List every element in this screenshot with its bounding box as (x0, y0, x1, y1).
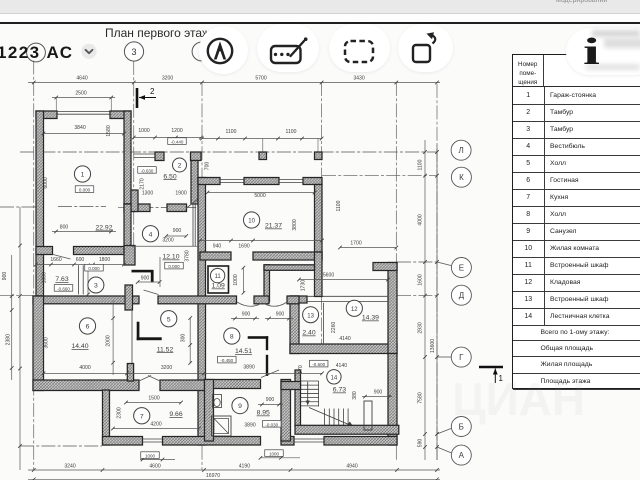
svg-text:4940: 4940 (346, 464, 357, 470)
svg-text:21.37: 21.37 (265, 223, 282, 230)
dimension line 5000 (206, 191, 317, 195)
svg-text:4200: 4200 (150, 422, 161, 428)
wall room9 left (205, 380, 214, 442)
svg-text:12: 12 (351, 307, 358, 313)
axis line K (322, 175, 437, 177)
partition room6/5 (131, 310, 133, 380)
svg-text:1900: 1900 (175, 191, 186, 197)
table row 13 Встроенный шкаф (513, 291, 640, 309)
svg-text:2260: 2260 (331, 322, 337, 333)
axis bubble top 3 (122, 39, 148, 65)
plan title (105, 26, 217, 40)
wall garage left (36, 111, 44, 296)
table row 14 Лестничная клетка (513, 308, 640, 326)
wall stair bottom (295, 425, 399, 434)
wall room6 bottom (33, 380, 139, 391)
table row 11 Встроенный шкаф (513, 257, 640, 275)
svg-text:5000: 5000 (254, 193, 265, 199)
axis line A left (20, 445, 102, 447)
dropdown chevron button (80, 42, 100, 62)
elevation mark -0.030 (263, 421, 282, 428)
wall block right (388, 263, 397, 354)
svg-text:7: 7 (140, 413, 144, 420)
pier above band (127, 364, 133, 382)
axis line mid (118, 207, 198, 209)
grid line 6 (436, 84, 438, 460)
door leaf tambour (187, 199, 199, 208)
svg-text:2000: 2000 (106, 335, 112, 346)
dim 900b (265, 317, 293, 321)
dimension line 1000 closet (242, 266, 246, 295)
svg-text:3430: 3430 (353, 76, 364, 82)
elevation mark -0.660 (54, 285, 73, 292)
dimension line 900 room4 (164, 234, 188, 238)
svg-text:Е: Е (459, 263, 464, 272)
svg-text:1200: 1200 (171, 128, 182, 134)
svg-text:4640: 4640 (76, 76, 87, 82)
axis bubble А (451, 445, 471, 465)
room circle 1 (74, 166, 90, 182)
toolbar pill edit (257, 24, 319, 72)
left dim line 2 (18, 207, 22, 470)
room circle 4 (142, 226, 158, 242)
svg-text:22.92: 22.92 (95, 225, 112, 232)
icon dashed selection (341, 37, 378, 65)
svg-text:0.000: 0.000 (168, 264, 180, 269)
icon rotate (407, 30, 445, 68)
svg-text:А: А (459, 451, 465, 460)
svg-text:Д: Д (459, 291, 465, 300)
bottom dim row (28, 468, 440, 472)
table row 8 Холл (513, 206, 640, 224)
svg-text:-0.600: -0.600 (312, 362, 325, 367)
wall room4 left (124, 204, 131, 253)
wall room10 top pier3 (303, 178, 322, 185)
elevation mark 0.000 (85, 264, 104, 271)
entrance wall thin (134, 154, 155, 158)
svg-text:12.10: 12.10 (162, 254, 179, 261)
wall room9 right (281, 380, 291, 442)
wall stub left of room13 (287, 296, 299, 304)
wall room6 left (33, 296, 44, 391)
pier at entrance right (191, 152, 202, 161)
axis bubble Л (451, 140, 471, 160)
wall lower bottom 1 (103, 437, 143, 446)
bottom total dim (28, 478, 440, 480)
room circle 14 (327, 370, 341, 384)
toilet room9 (213, 395, 222, 408)
leader A (437, 447, 451, 453)
grid line 1 (33, 61, 35, 471)
wall tambour right (191, 161, 198, 205)
white strip (0, 14, 640, 22)
dim 900 stair (362, 395, 392, 399)
svg-text:4140: 4140 (339, 336, 350, 342)
svg-text:-0.030: -0.030 (265, 422, 278, 427)
svg-text:11.52: 11.52 (157, 346, 174, 353)
svg-text:-0.450: -0.450 (220, 358, 233, 363)
svg-text:4000: 4000 (79, 365, 90, 371)
wall block top right (373, 263, 397, 271)
svg-text:Л: Л (458, 146, 463, 155)
wall garage right (124, 111, 131, 204)
axis bubble К (451, 167, 471, 187)
porch opening (294, 439, 324, 442)
wall room10 bottom left (200, 252, 231, 260)
wall garage bottom left (36, 247, 53, 255)
dim 2000 (111, 300, 115, 375)
partition room5 top (132, 270, 154, 273)
room circle 11 (210, 268, 224, 282)
svg-text:9: 9 (238, 403, 242, 410)
table summary row Площадь этажа (513, 374, 640, 390)
svg-text:2: 2 (150, 87, 155, 96)
svg-text:380: 380 (352, 391, 358, 400)
dimension line 900 room5 (136, 280, 162, 284)
dimension line entrance (132, 136, 203, 140)
axis bubble top 4 (partial) (190, 40, 216, 66)
door swing stairs (261, 370, 279, 378)
partition below tambour (193, 204, 195, 246)
axis line E (397, 261, 437, 263)
room circle 2 (173, 158, 187, 172)
svg-text:5: 5 (167, 316, 171, 323)
svg-text:1000: 1000 (269, 452, 280, 457)
table row 4 Вестибюль (513, 138, 640, 156)
axis bubble Б (451, 417, 471, 437)
table row 12 Кладовая (513, 274, 640, 292)
svg-text:1000: 1000 (138, 128, 149, 134)
drawing frame top border (0, 22, 640, 24)
axis line left upper (0, 206, 36, 208)
partition rooms 12-13 (323, 303, 325, 344)
svg-text:800: 800 (60, 225, 69, 231)
partition room5 bottom (137, 337, 162, 340)
plan id text (0, 43, 73, 63)
bottom door dim (259, 456, 300, 460)
closet room 11 (208, 266, 229, 293)
wall spine vertical (198, 178, 206, 446)
toolbar pill rotate (398, 24, 453, 72)
svg-text:940: 940 (213, 244, 222, 250)
svg-text:1580: 1580 (106, 125, 112, 136)
svg-text:8.95: 8.95 (257, 410, 270, 417)
svg-text:1100: 1100 (418, 159, 424, 170)
room12 top boundary lines (307, 296, 388, 301)
pier at entrance left (155, 152, 164, 161)
room circle 8 (224, 328, 240, 344)
dimension line 2500 (52, 96, 115, 100)
table row 3 Тамбур (513, 121, 640, 139)
right dim line outer (435, 145, 439, 460)
info icon (583, 30, 600, 74)
dim 900 r9 (258, 403, 283, 407)
wall vestibule right stub (264, 265, 270, 302)
table row 5 Холл (513, 155, 640, 173)
svg-text:4000: 4000 (418, 214, 424, 225)
dimension line 1700 (338, 246, 398, 250)
table row 9 Санузел (513, 223, 640, 241)
wall room10 bottom right (253, 252, 322, 260)
svg-text:4190: 4190 (239, 464, 250, 470)
door leaf hall (144, 290, 159, 295)
leader G (437, 356, 451, 358)
leader B (437, 429, 451, 435)
svg-text:900: 900 (141, 276, 150, 282)
dim 900a (231, 317, 259, 321)
elevation mark -0.600 (309, 360, 328, 367)
svg-text:-0.660: -0.660 (57, 286, 70, 291)
dim room3 (86, 264, 90, 297)
blurred content under pill (592, 30, 640, 37)
wall lower bottom 2 (163, 437, 261, 446)
svg-text:3200: 3200 (162, 238, 173, 244)
bathtub room9 (212, 416, 232, 436)
svg-text:1500: 1500 (148, 396, 159, 402)
svg-text:4600: 4600 (149, 464, 160, 470)
wall top of garage right pier (110, 111, 131, 119)
svg-text:700: 700 (205, 162, 211, 171)
wall room10 top pier1 (198, 178, 220, 185)
svg-text:14.39: 14.39 (362, 315, 379, 322)
svg-text:3600: 3600 (44, 337, 50, 348)
wall room13 left (290, 296, 299, 354)
column canopy 2 (315, 152, 323, 160)
svg-text:590: 590 (418, 439, 424, 448)
wall room9 to stair (281, 382, 301, 390)
boxed dim 1000 right (265, 450, 284, 457)
elevation mark -0.440 (168, 138, 187, 145)
partition room8 right lower (266, 355, 268, 376)
wall garage bottom right (74, 247, 132, 255)
closet under stairs (364, 401, 372, 430)
svg-text:3: 3 (131, 47, 136, 57)
room circle 7 (134, 408, 150, 424)
wall right lower (388, 354, 397, 446)
dimension line 800 (52, 230, 116, 234)
room circle 5 (161, 311, 177, 327)
column canopy 1 (259, 152, 267, 160)
room4 lower boundary line (131, 245, 198, 247)
svg-text:3200: 3200 (161, 365, 172, 371)
grid line 5 (395, 82, 397, 462)
wall below tambour right (167, 204, 187, 212)
svg-text:3: 3 (94, 283, 98, 290)
svg-text:14.51: 14.51 (235, 348, 252, 355)
svg-text:9.66: 9.66 (169, 411, 182, 418)
svg-text:1100: 1100 (286, 129, 297, 135)
svg-text:6000: 6000 (43, 177, 49, 188)
svg-text:3890: 3890 (244, 423, 255, 429)
table summary row Общая площадь (513, 341, 640, 357)
room circle 13 (303, 307, 319, 323)
section marker 2 (137, 87, 156, 108)
dim 5600 (297, 278, 390, 282)
leader E (437, 262, 451, 266)
elevation mark -0.030 (138, 167, 157, 174)
status bar (0, 0, 640, 14)
table summary row Жилая площадь (513, 357, 640, 373)
svg-text:900: 900 (242, 312, 251, 318)
staircase arrow (309, 408, 353, 427)
svg-text:2300: 2300 (117, 407, 123, 418)
svg-text:1: 1 (81, 172, 85, 179)
dimension line room10 bottom (198, 239, 324, 243)
staircase treads flight1 (300, 381, 319, 407)
table row 10 Жилая комната (513, 240, 640, 258)
svg-text:1700: 1700 (350, 241, 361, 247)
left dim line (10, 255, 14, 380)
elevation mark -0.450 (218, 356, 237, 363)
icon compass (203, 34, 237, 68)
svg-text:170: 170 (298, 365, 304, 374)
svg-text:2: 2 (178, 163, 182, 170)
svg-text:3780: 3780 (185, 250, 191, 261)
svg-text:0.000: 0.000 (79, 188, 91, 193)
toolbar pill select (329, 24, 390, 72)
boxed dim 1000 left (141, 452, 160, 459)
svg-text:10: 10 (248, 219, 255, 225)
door arcs corridor (237, 302, 287, 306)
room table (512, 54, 640, 389)
dimension line 3840 (42, 132, 126, 136)
wall corridor top right part (158, 296, 237, 304)
wall room10 right (315, 185, 323, 261)
grid line 4 (321, 82, 323, 347)
wall stub room6 right (125, 285, 133, 310)
table header (513, 55, 545, 87)
watermark (452, 372, 585, 426)
svg-text:5700: 5700 (255, 76, 266, 82)
svg-text:0.000: 0.000 (88, 266, 100, 271)
svg-text:1800: 1800 (99, 257, 110, 263)
window in garage top wall (57, 112, 110, 115)
svg-text:1.09: 1.09 (212, 283, 225, 290)
svg-text:6.50: 6.50 (163, 173, 176, 180)
axis line D left (0, 295, 33, 297)
svg-text:5600: 5600 (323, 273, 334, 279)
svg-text:1660: 1660 (50, 257, 61, 263)
svg-text:4: 4 (149, 231, 153, 238)
svg-text:4140: 4140 (336, 363, 347, 369)
toolbar pill compass (199, 26, 248, 74)
svg-text:2380: 2380 (6, 334, 12, 345)
svg-text:13: 13 (307, 313, 314, 319)
svg-text:7580: 7580 (418, 392, 424, 403)
window lower bottom 1 (143, 439, 163, 442)
axis line room1 (58, 206, 106, 208)
wall lower left (103, 390, 110, 445)
svg-text:300: 300 (181, 334, 187, 343)
dim 4200 (111, 427, 201, 431)
pier room2 left (131, 190, 138, 212)
bottom window dim (140, 458, 175, 462)
wall lower bottom 3 (281, 437, 294, 446)
grid line 3 (201, 82, 203, 470)
room circle 9 (232, 398, 248, 414)
wall block bottom (290, 344, 397, 354)
pier between doors (254, 296, 269, 304)
dim row mid (42, 372, 324, 376)
svg-text:7.63: 7.63 (55, 276, 68, 283)
svg-text:2.40: 2.40 (302, 330, 315, 337)
svg-text:1880: 1880 (42, 272, 48, 283)
svg-text:-0.440: -0.440 (171, 140, 184, 145)
svg-text:900: 900 (374, 390, 383, 396)
icon edit (267, 35, 313, 69)
info pill (566, 28, 640, 75)
svg-text:1690: 1690 (238, 244, 249, 250)
wall top of garage left pier (36, 111, 57, 119)
wall corner room4 (124, 246, 135, 266)
table row 1 Гараж-стоянка (513, 87, 640, 105)
grid line 2 (133, 61, 135, 250)
room circle 10 (244, 212, 260, 228)
svg-text:1000: 1000 (145, 454, 156, 459)
svg-text:3200: 3200 (162, 76, 173, 82)
svg-text:3240: 3240 (64, 464, 75, 470)
svg-text:-0.030: -0.030 (141, 168, 154, 173)
axis bubble Е (451, 258, 471, 278)
svg-text:13600: 13600 (430, 339, 436, 353)
room circle 3 (88, 277, 104, 293)
dimension line strip (34, 263, 126, 267)
top dimension line (28, 81, 440, 85)
dim room5 right (188, 316, 192, 365)
jamb line (159, 257, 161, 287)
wall above room13 (315, 252, 323, 297)
partition room5 top right drop (151, 270, 154, 282)
svg-text:1300: 1300 (142, 191, 153, 197)
staircase treads flight2 (325, 409, 349, 426)
svg-text:600: 600 (76, 257, 85, 263)
partition room8 right upper (266, 336, 268, 350)
wall stair left (295, 370, 301, 426)
svg-text:Г: Г (459, 353, 464, 362)
wall room5 bottom (160, 380, 206, 391)
window room10 top1 (220, 180, 244, 183)
svg-text:900: 900 (173, 228, 182, 234)
door leaf garage (53, 255, 71, 260)
dimension line canopy (200, 137, 323, 141)
dim 1500 (124, 401, 183, 405)
svg-text:14: 14 (331, 375, 338, 381)
wall room6 top left part (33, 296, 139, 304)
door swing kitchen (139, 376, 160, 382)
extension lines 2500 (56, 98, 111, 112)
stud partition room3 (79, 265, 84, 294)
right dim line inner (423, 140, 427, 460)
svg-text:900: 900 (276, 312, 285, 318)
column stems (263, 139, 318, 153)
svg-text:1730: 1730 (301, 280, 307, 291)
svg-text:900: 900 (266, 397, 275, 403)
table summary row Всего по 1-ому этажу: (513, 325, 640, 341)
svg-text:К: К (459, 173, 464, 182)
elevation mark 0.000 (165, 262, 184, 269)
svg-text:16970: 16970 (206, 473, 220, 479)
wall room9 top (205, 380, 261, 389)
table row 2 Тамбур (513, 104, 640, 122)
elevation mark 0.000 (75, 186, 94, 193)
room circle 12 (346, 300, 362, 316)
svg-text:3840: 3840 (74, 125, 85, 131)
staircase direction line (306, 382, 310, 406)
table row 6 Гостиная (513, 172, 640, 190)
svg-text:3800: 3800 (292, 219, 298, 230)
svg-text:1000: 1000 (233, 274, 239, 285)
axis bubble Д (451, 285, 471, 305)
